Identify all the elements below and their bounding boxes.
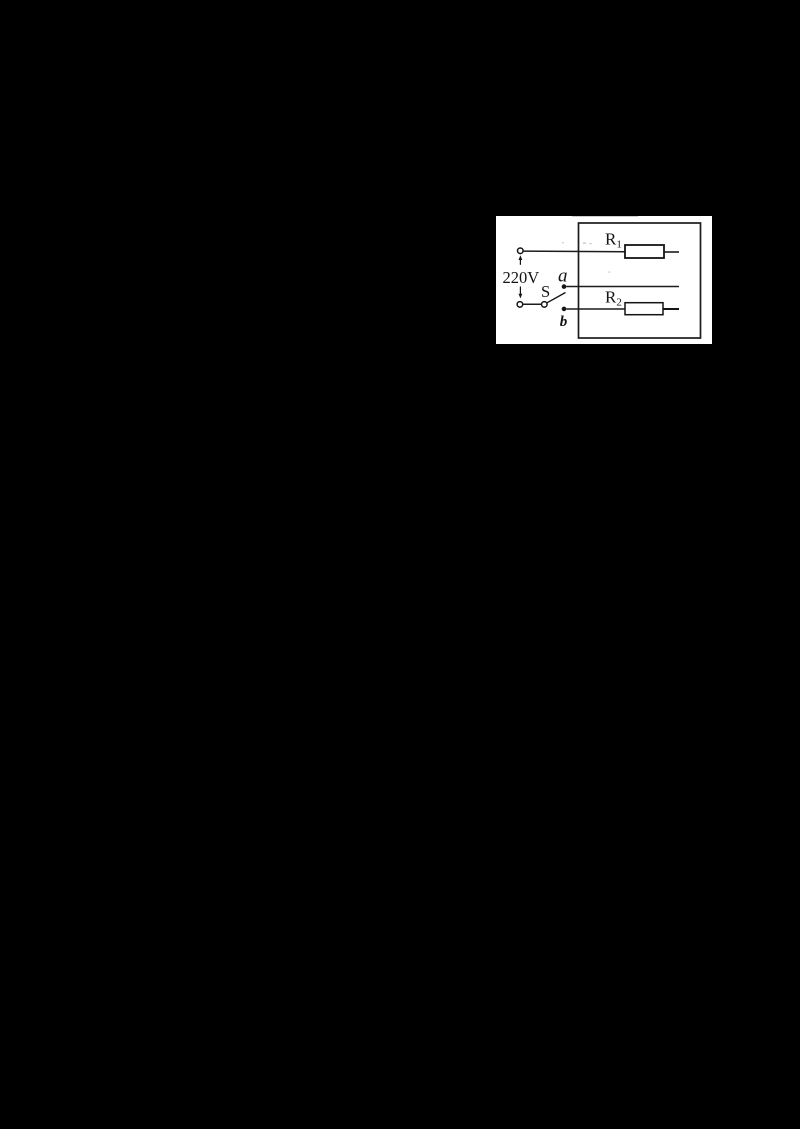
- wire top terminal to R1: [523, 250, 625, 253]
- node a: [562, 284, 567, 289]
- wire R1 right lead: [664, 251, 679, 253]
- wire R2 right lead: [663, 308, 679, 310]
- svg-text:R1: R1: [605, 229, 622, 250]
- svg-text:a: a: [558, 266, 568, 287]
- wire bottom terminal to switch: [523, 303, 542, 305]
- device box enclosure: [579, 223, 701, 338]
- scan streak top edge: [572, 215, 638, 218]
- scan speckles: [562, 242, 610, 272]
- svg-text:b: b: [560, 314, 568, 330]
- resistor R1: [625, 245, 664, 258]
- wire node a to box: [566, 286, 679, 288]
- polarity arrow up: [519, 255, 523, 265]
- resistor R2: [625, 303, 663, 315]
- switch S blade: [547, 293, 566, 303]
- wire node b to R2: [566, 308, 625, 310]
- svg-text:S: S: [541, 282, 550, 301]
- source terminal top: [518, 248, 524, 254]
- switch S pivot: [542, 302, 548, 308]
- svg-text:R2: R2: [605, 288, 622, 309]
- node b: [562, 307, 567, 312]
- svg-text:220V: 220V: [503, 268, 540, 287]
- source terminal bottom: [517, 302, 523, 308]
- polarity arrow down: [519, 287, 523, 299]
